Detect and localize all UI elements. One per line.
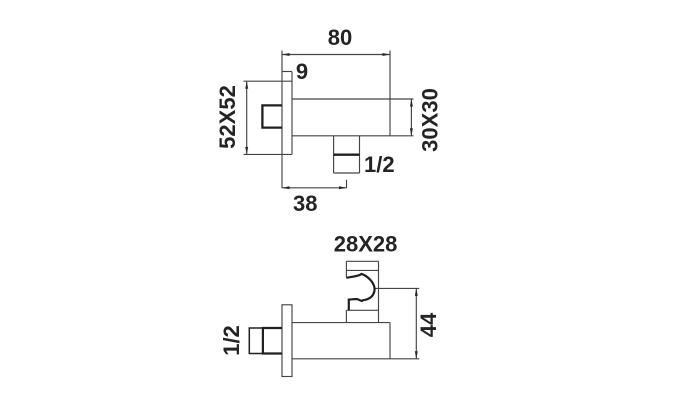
svg-text:52X52: 52X52 [215, 85, 240, 149]
outlet tube bottom edge [334, 172, 360, 174]
arrowhead 52X52 bottom [245, 147, 248, 155]
arrowhead 30X30 top [410, 99, 413, 107]
body bottom edge + 30X30 bottom extension [292, 135, 414, 137]
arrowhead 80 right [383, 53, 391, 56]
arrowhead 52X52 top [245, 81, 248, 89]
flange bottom edge + 52X52 bottom extension [244, 153, 293, 155]
wire: 80-dim left extension + flange left face + 38-dim extension [281, 51, 283, 189]
arrowhead 80 left [282, 53, 290, 56]
body bar top edge [292, 322, 390, 324]
svg-text:9: 9 [296, 59, 308, 84]
holder clip (C shape) [346, 274, 374, 310]
holder column left edge lower segment [345, 310, 347, 322]
svg-text:28X28: 28X28 [334, 232, 398, 257]
holder column cap top [346, 260, 378, 262]
outlet tube right edge [359, 136, 361, 173]
outlet tube divider (thick) [334, 154, 360, 156]
holder column left edge upper segment [345, 261, 347, 278]
svg-text:80: 80 [328, 25, 352, 50]
holder column lower divider [346, 309, 378, 311]
38-dim right extension tick [346, 180, 348, 188]
svg-text:30X30: 30X30 [418, 88, 443, 152]
holder column right edge [378, 261, 380, 322]
44-dim top extension from clip point [374, 287, 419, 289]
dimension 9 line [282, 71, 292, 73]
wall plate (side view) [282, 305, 292, 377]
svg-text:44: 44 [416, 312, 441, 337]
body top edge + 30X30 top extension [292, 98, 414, 100]
svg-text:1/2: 1/2 [219, 325, 244, 356]
dimension 52X52 line [246, 81, 248, 154]
arrowhead 38 right [339, 186, 347, 189]
arrowhead 30X30 bottom [410, 128, 413, 136]
arrowhead 44 bottom [415, 351, 418, 359]
body bar right edge [389, 323, 391, 359]
svg-text:1/2: 1/2 [364, 152, 395, 177]
inlet boss square (top figure) [262, 105, 282, 127]
dimension 30X30 line [410, 99, 412, 136]
outlet tube left edge [333, 136, 335, 173]
arrowhead 38 left [282, 186, 290, 189]
holder column cap bottom line [346, 269, 378, 271]
dimension 80 line [282, 54, 390, 56]
dimension 38 line [282, 187, 347, 189]
arrowhead 44 top [415, 288, 418, 296]
flange top edge + 52X52 top extension [244, 80, 293, 82]
dimension 44 line [415, 288, 417, 358]
body bar bottom edge + 44-dim bottom extension [292, 358, 419, 360]
inlet boss square (bottom figure) [263, 328, 282, 354]
wire: 80-dim right extension + body right edge [389, 51, 391, 136]
inlet stub 1/2 [249, 328, 263, 354]
svg-text:38: 38 [293, 191, 317, 216]
flange right face [291, 72, 293, 155]
